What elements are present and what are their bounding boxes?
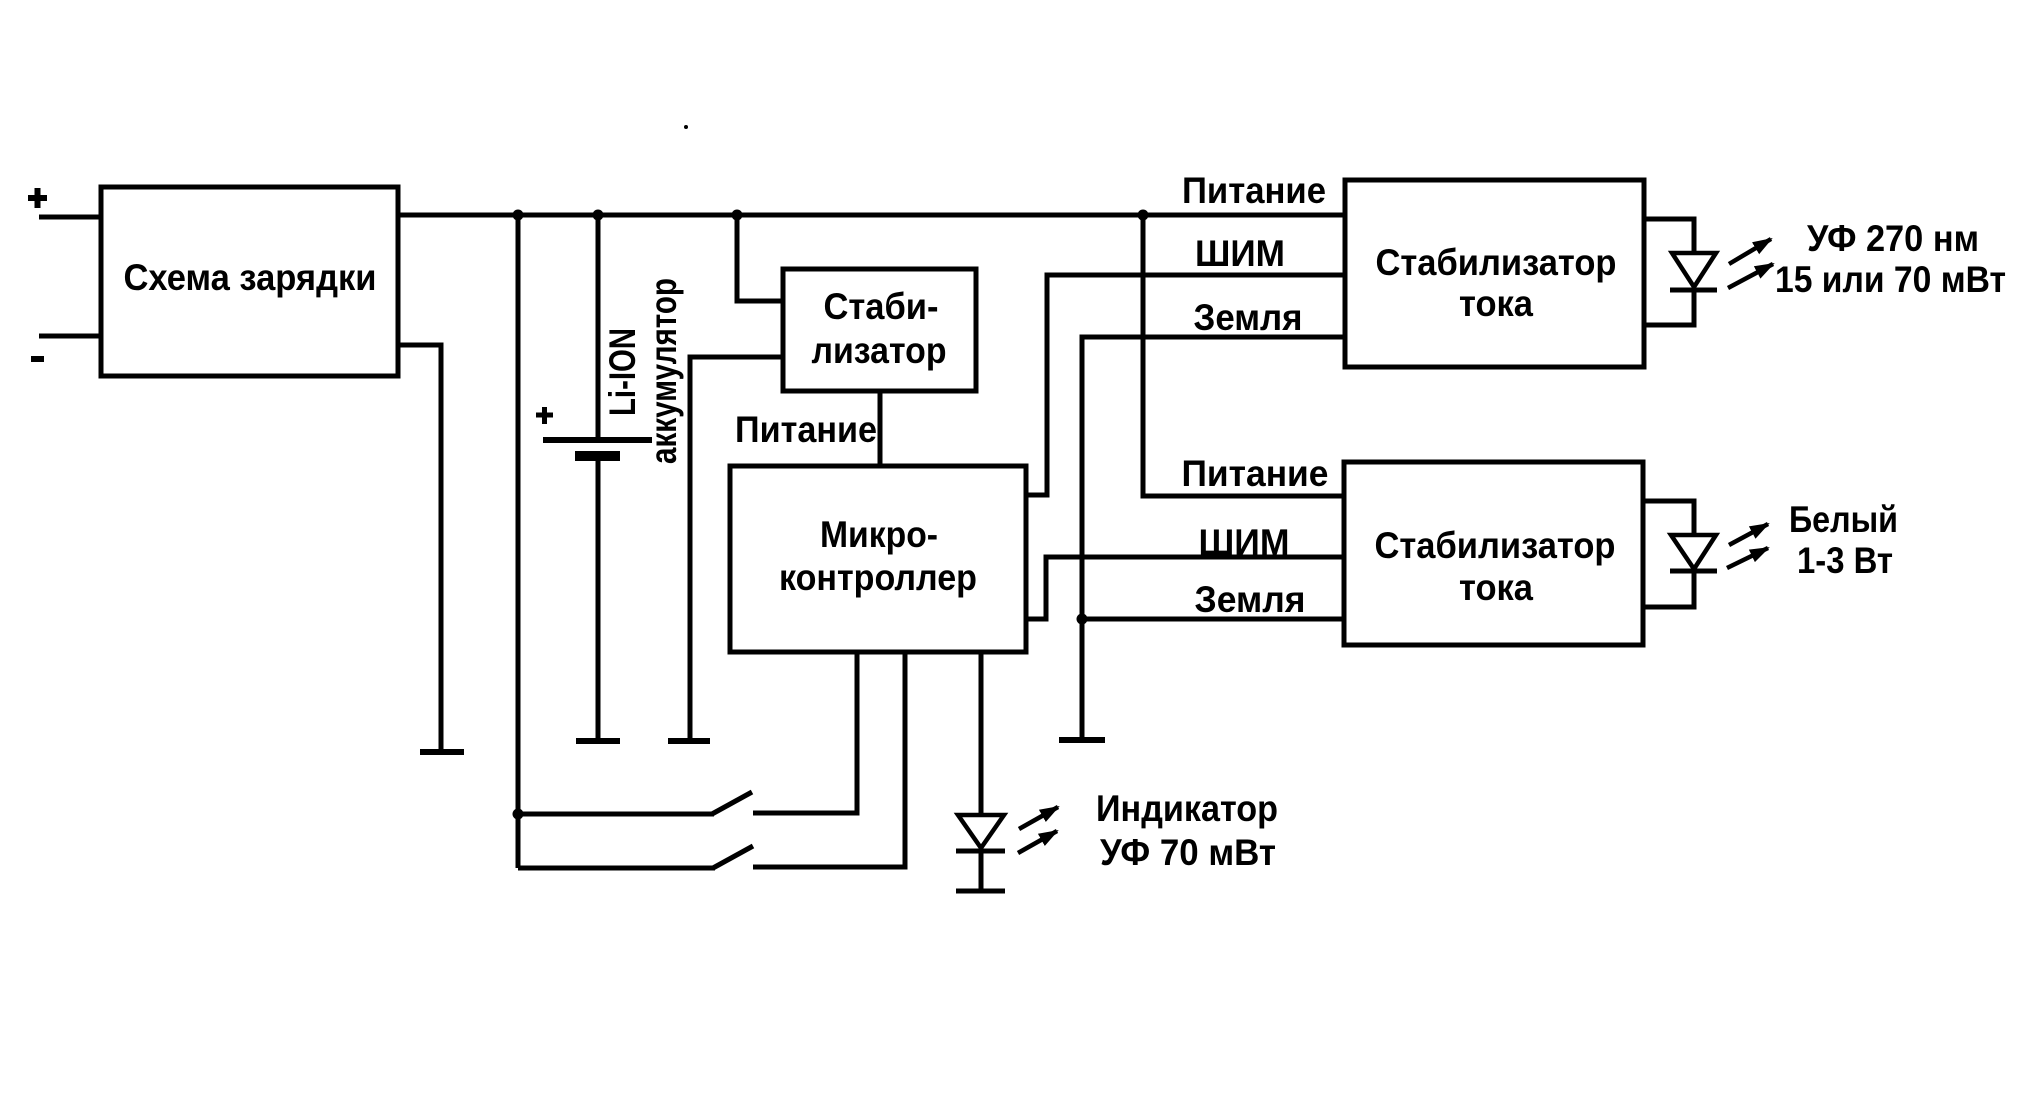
svg-text:тока: тока bbox=[1459, 283, 1533, 324]
LED D2 triangle bbox=[1671, 535, 1716, 569]
wire: Земля 2 to current stabilizer 2 bbox=[1082, 617, 1345, 622]
svg-text:Питание: Питание bbox=[735, 409, 877, 450]
battery GB1 negative plate bbox=[575, 451, 620, 461]
LED D1 triangle bbox=[1672, 253, 1716, 287]
svg-text:Питание: Питание bbox=[1182, 453, 1329, 494]
ground G2 bbox=[576, 738, 620, 744]
block: Стабилизатор тока 2 (current stabilizer 2) bbox=[1344, 462, 1643, 645]
wire: switch row 1 left segment bbox=[518, 812, 714, 817]
node: switch row 1 junction bbox=[513, 809, 524, 820]
wire: ground net vertical with Земля 1 branch bbox=[1082, 337, 1345, 740]
wire: Питание 2 from bus to current stabilizer 2 bbox=[1143, 215, 1345, 496]
svg-text:ШИМ: ШИМ bbox=[1195, 233, 1285, 274]
wire: LED D3 cathode lead bbox=[979, 851, 984, 891]
wire: bus to battery plus plate bbox=[596, 215, 601, 440]
block: Стабилизатор (voltage stabilizer) bbox=[783, 269, 976, 391]
battery plus sign bbox=[536, 407, 553, 424]
wire: LED D1 cathode back to current stabilizer 1 bbox=[1644, 290, 1694, 325]
LED D3 terminal bar bbox=[956, 889, 1005, 894]
block: Схема зарядки (charging circuit) bbox=[101, 187, 398, 376]
LED D3 light arrows bbox=[1019, 807, 1058, 829]
wire: switch S2 to microcontroller bbox=[753, 652, 905, 867]
svg-text:Питание: Питание bbox=[1182, 170, 1326, 211]
svg-text:ШИМ: ШИМ bbox=[1199, 522, 1290, 563]
svg-text:лизатор: лизатор bbox=[812, 330, 947, 371]
wire: PWM2 from microcontroller to current stabilizer 2 bbox=[1026, 557, 1345, 619]
ground G1 bbox=[420, 749, 464, 755]
svg-text:УФ 270 нм: УФ 270 нм bbox=[1807, 218, 1979, 259]
wire: switch feed vertical from bus bbox=[516, 215, 521, 868]
wire: PWM1 from microcontroller to current stabilizer 1 bbox=[1026, 275, 1345, 495]
LED D2 light arrows bbox=[1729, 524, 1768, 545]
svg-text:Земля: Земля bbox=[1194, 297, 1303, 338]
wire: - input to charger bbox=[39, 334, 101, 339]
battery GB1 positive plate bbox=[543, 437, 652, 443]
node: bus junction at battery bbox=[593, 210, 604, 221]
wire: current stabilizer 2 to LED D2 anode bbox=[1643, 501, 1694, 535]
block: Микроконтроллер (microcontroller) bbox=[730, 466, 1026, 652]
wire: current stabilizer 1 to LED D1 anode bbox=[1644, 219, 1694, 253]
svg-text:Белый: Белый bbox=[1789, 499, 1898, 540]
switch S1 blade bbox=[712, 792, 752, 814]
svg-text:1-3 Вт: 1-3 Вт bbox=[1797, 540, 1893, 581]
svg-text:Земля: Земля bbox=[1195, 579, 1306, 620]
block: Стабилизатор тока 1 (current stabilizer 1) bbox=[1345, 180, 1644, 367]
svg-text:Микро-: Микро- bbox=[820, 514, 938, 555]
svg-text:Стабилизатор: Стабилизатор bbox=[1375, 525, 1616, 566]
wire: stabilizer output to microcontroller (Питание) bbox=[878, 391, 883, 466]
switch S2 blade bbox=[713, 846, 753, 868]
svg-text:аккумулятор: аккумулятор bbox=[643, 278, 684, 464]
wire: bus to voltage stabilizer input bbox=[737, 215, 783, 301]
wire: LED D2 cathode back to current stabilizer 2 bbox=[1643, 571, 1694, 607]
svg-text:Li-ION: Li-ION bbox=[602, 328, 643, 416]
plus terminal bbox=[28, 188, 47, 208]
svg-text:контроллер: контроллер bbox=[779, 557, 977, 598]
minus terminal bbox=[31, 356, 44, 362]
LED D3 cathode bar bbox=[956, 849, 1005, 854]
ground G4 bbox=[1059, 737, 1105, 743]
node: bus junction at stabilizer feed bbox=[732, 210, 743, 221]
svg-text:15 или 70 мВт: 15 или 70 мВт bbox=[1775, 259, 2006, 300]
LED D2 cathode bar bbox=[1670, 569, 1717, 574]
scan speck bbox=[684, 125, 688, 129]
node: bus junction at power 2 bbox=[1138, 210, 1149, 221]
wire: microcontroller to indicator LED D3 bbox=[979, 652, 984, 815]
LED D3 triangle bbox=[958, 815, 1004, 848]
svg-text:УФ 70 мВт: УФ 70 мВт bbox=[1100, 832, 1276, 873]
wire: switch row 2 left segment bbox=[518, 866, 715, 871]
svg-text:Схема зарядки: Схема зарядки bbox=[124, 257, 377, 298]
svg-text:Стаби-: Стаби- bbox=[824, 286, 939, 327]
svg-text:тока: тока bbox=[1459, 567, 1533, 608]
LED D1 light arrows bbox=[1729, 239, 1771, 264]
wire: + input to charger bbox=[39, 215, 101, 220]
wire: switch S1 to microcontroller bbox=[753, 652, 857, 813]
wire: battery minus to ground bbox=[596, 458, 601, 741]
ground G3 bbox=[668, 738, 710, 744]
wire: charger minus output down to ground bbox=[398, 345, 441, 752]
svg-text:Стабилизатор: Стабилизатор bbox=[1376, 242, 1617, 283]
wire: power bus from charger to current stabilizer 1 bbox=[398, 213, 1345, 218]
node: bus junction at switch feed bbox=[513, 210, 524, 221]
wire: voltage stabilizer lower pin to ground bbox=[690, 357, 783, 741]
node: ground net junction bbox=[1077, 614, 1088, 625]
svg-text:Индикатор: Индикатор bbox=[1096, 788, 1278, 829]
LED D1 cathode bar bbox=[1670, 288, 1717, 293]
